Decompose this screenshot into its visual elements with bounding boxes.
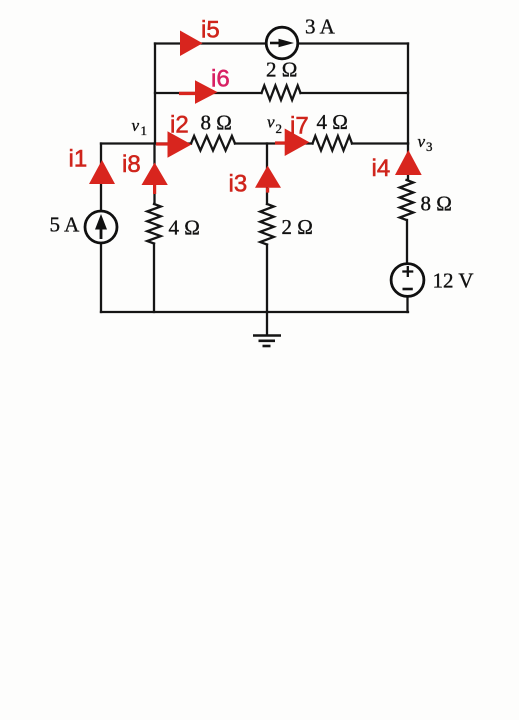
svg-text:2 Ω: 2 Ω — [266, 58, 297, 82]
wire: v2-v3 right segment — [352, 142, 408, 144]
wire: i1 branch lower — [100, 243, 102, 312]
svg-text:i7: i7 — [290, 113, 309, 140]
arrow i6 — [179, 80, 218, 104]
svg-text:v: v — [418, 132, 426, 151]
resistor 8ohm (middle horizontal) — [191, 136, 235, 151]
svg-text:i8: i8 — [122, 151, 141, 178]
wire: i8 branch upper — [153, 144, 155, 205]
svg-text:i2: i2 — [170, 112, 189, 139]
svg-text:4 Ω: 4 Ω — [169, 216, 200, 240]
svg-text:i1: i1 — [69, 146, 88, 173]
resistor 8ohm (right vertical) — [400, 180, 414, 220]
wire: right vertical (top corner to node v3) — [407, 44, 409, 144]
svg-text:i4: i4 — [372, 155, 391, 182]
wire: second level right segment — [301, 92, 409, 94]
ground stub — [266, 312, 268, 335]
wire: v3 branch lower — [406, 297, 408, 313]
svg-text:5 A: 5 A — [50, 213, 81, 237]
wire: v3 branch middle — [406, 220, 408, 264]
resistor 2ohm (middle vertical) — [260, 204, 274, 245]
arrow i3 — [255, 166, 281, 193]
wire: second level left segment — [155, 92, 262, 94]
arrow i2 — [156, 131, 192, 158]
svg-text:3: 3 — [426, 139, 433, 154]
svg-text:2: 2 — [276, 121, 283, 136]
svg-text:i3: i3 — [229, 171, 248, 198]
svg-text:v: v — [267, 113, 275, 132]
arrow i1 — [89, 160, 115, 184]
wire: i3 branch lower — [266, 245, 268, 313]
svg-text:i5: i5 — [201, 17, 220, 44]
svg-text:i6: i6 — [211, 65, 230, 92]
current source 5A — [85, 211, 117, 243]
wire: v1 level left segment — [101, 142, 191, 144]
svg-text:4 Ω: 4 Ω — [317, 110, 348, 134]
svg-text:2 Ω: 2 Ω — [282, 215, 313, 239]
wire: bottom rail — [101, 311, 408, 313]
resistor 4ohm (middle horizontal) — [313, 136, 353, 151]
svg-text:8 Ω: 8 Ω — [201, 111, 232, 135]
svg-text:8 Ω: 8 Ω — [421, 192, 452, 216]
svg-text:1: 1 — [141, 123, 148, 138]
wire: left vertical (top corner to node v1) — [154, 44, 156, 144]
arrow i5 — [180, 31, 203, 57]
arrow i7 — [275, 129, 309, 157]
wire: v2 segment between resistors — [235, 142, 313, 144]
svg-text:v: v — [132, 116, 140, 135]
wire: v3 branch upper — [407, 144, 409, 181]
current source 3A — [266, 27, 298, 59]
wire: top left segment — [155, 42, 265, 44]
resistor 4ohm (left vertical) — [147, 204, 161, 244]
svg-text:3 A: 3 A — [305, 15, 336, 39]
arrow i4 — [395, 150, 422, 175]
resistor 2ohm (top horizontal) — [262, 86, 301, 101]
wire: i1 branch upper — [100, 144, 102, 212]
arrow i8 — [142, 163, 168, 195]
svg-text:12 V: 12 V — [433, 269, 474, 293]
voltage source 12V — [391, 264, 424, 297]
wire: i3 branch upper — [266, 144, 268, 205]
wire: i8 branch lower — [153, 244, 155, 313]
ground symbol — [253, 336, 281, 347]
wire: top right segment — [299, 42, 408, 44]
